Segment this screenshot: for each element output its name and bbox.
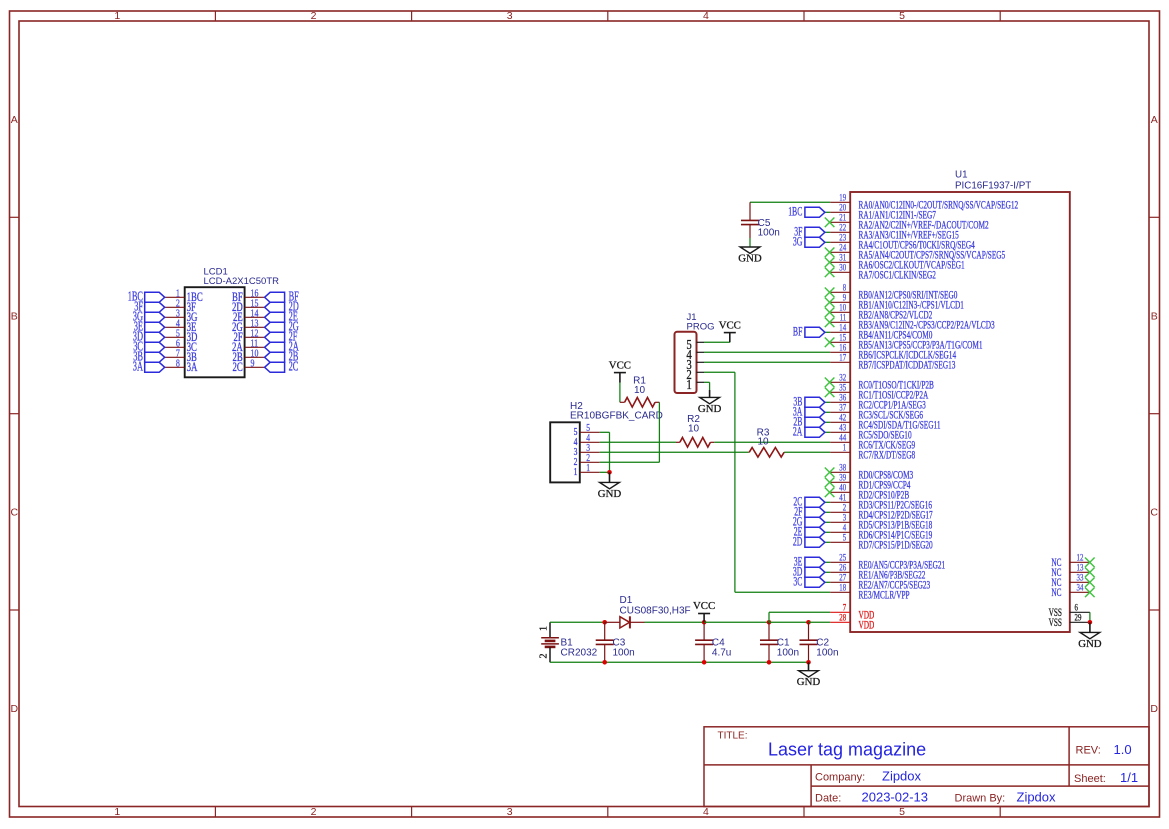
LCD1 pin 4 3E: [165, 317, 197, 333]
wire H2 pin3 to R3: [600, 451, 749, 453]
svg-text:24: 24: [839, 244, 846, 254]
svg-text:2C: 2C: [289, 359, 299, 374]
svg-text:C: C: [11, 507, 19, 519]
wire J1 pin2 to U1 pin18: [704, 372, 830, 592]
H2 pin 5: [574, 423, 600, 438]
svg-text:GND: GND: [738, 252, 762, 264]
U1 pin 14 RB4: [830, 324, 932, 342]
svg-text:44: 44: [839, 434, 846, 444]
svg-text:100n: 100n: [816, 647, 838, 658]
svg-text:ER10BGFBK_CARD: ER10BGFBK_CARD: [570, 410, 663, 421]
svg-text:3A: 3A: [133, 359, 143, 374]
svg-text:100n: 100n: [613, 647, 635, 658]
net flag 3G (U1 pin 23): [793, 235, 830, 249]
svg-text:Zipdox: Zipdox: [882, 769, 922, 784]
U1 pin 37 RC3: [830, 404, 923, 422]
battery B1 CR2032: [539, 622, 598, 662]
U1 pin 25 RE0: [830, 554, 945, 572]
U1 pin 15 RB5: [825, 334, 983, 352]
svg-text:2C: 2C: [233, 360, 243, 374]
net flag 3E (LCD1 pin 4): [134, 319, 165, 334]
svg-text:Company:: Company:: [815, 772, 865, 784]
net flag 3C (LCD1 pin 6): [133, 339, 165, 354]
svg-text:VCC: VCC: [693, 600, 715, 612]
capacitor C1 100n: [760, 622, 799, 662]
U1 pin 39 RD1: [825, 474, 911, 492]
frame column numbers: [114, 10, 905, 818]
U1 pin 12 NC: [1051, 554, 1094, 569]
svg-text:CR2032: CR2032: [561, 647, 598, 658]
svg-text:4.7u: 4.7u: [712, 647, 731, 658]
U1 pin 24 RA5: [825, 244, 1005, 262]
ground GND at H2: [598, 472, 622, 500]
LCD1 pin 2 3F: [165, 297, 196, 313]
wire R2 to U1 pin44: [714, 441, 830, 443]
svg-text:7: 7: [843, 604, 847, 614]
U1 pin 23 RA4: [830, 234, 975, 252]
U1 pin 7 VDD: [830, 604, 874, 622]
op-amp U1 PIC16F1937-I/PT body: [850, 170, 1070, 633]
net flag 2G (LCD1 pin 13): [265, 319, 299, 334]
net flag BF (LCD1 pin 16): [265, 289, 299, 304]
wire U1 pin19 to C5: [750, 201, 830, 203]
svg-text:33: 33: [1077, 574, 1084, 584]
wire VSS pin6 to pin29: [1089, 612, 1091, 622]
U1 pin 31 RA6: [825, 254, 965, 272]
svg-text:A: A: [1151, 114, 1158, 126]
svg-text:12: 12: [1077, 554, 1084, 564]
svg-text:RE3/MCLR/VPP: RE3/MCLR/VPP: [859, 589, 910, 602]
svg-text:23: 23: [839, 234, 846, 244]
svg-text:32: 32: [839, 374, 846, 384]
net flag 3D (LCD1 pin 5): [133, 329, 165, 344]
svg-text:6: 6: [1075, 604, 1079, 614]
svg-text:1: 1: [586, 463, 590, 474]
svg-text:4: 4: [843, 524, 847, 534]
svg-text:Sheet:: Sheet:: [1074, 773, 1106, 785]
LCD1 pin 5 3D: [165, 327, 198, 343]
wire C2 top to U1 pin28: [809, 621, 831, 623]
svg-text:PROG: PROG: [687, 321, 715, 332]
svg-text:2023-02-13: 2023-02-13: [862, 790, 929, 805]
svg-text:1/1: 1/1: [1120, 770, 1138, 785]
wire J1 pin3 to U1 pin17: [704, 361, 830, 363]
capacitor C2 100n: [800, 622, 839, 662]
net flag 2E (U1 pin 4): [794, 525, 830, 539]
net flag BF (U1 pin 14): [793, 325, 830, 339]
svg-text:8: 8: [176, 357, 180, 369]
title block: [704, 727, 1149, 807]
svg-text:CUS08F30,H3F: CUS08F30,H3F: [620, 605, 691, 616]
svg-text:13: 13: [1077, 564, 1084, 574]
LCD1 pin 13 2G: [232, 317, 265, 333]
svg-text:2: 2: [311, 10, 317, 22]
svg-text:1: 1: [539, 626, 550, 631]
svg-text:11: 11: [840, 314, 847, 324]
LCD1 pin 9 2C: [233, 357, 265, 373]
svg-text:3: 3: [843, 514, 847, 524]
U1 pin 1 RC7: [830, 444, 915, 462]
ground GND at U1 VSS: [1078, 622, 1102, 650]
svg-text:17: 17: [839, 354, 846, 364]
svg-text:LCD-A2X1C50TR: LCD-A2X1C50TR: [204, 276, 280, 287]
svg-text:VSS: VSS: [1049, 616, 1062, 629]
svg-text:42: 42: [839, 414, 846, 424]
svg-text:39: 39: [839, 474, 846, 484]
svg-text:40: 40: [839, 484, 846, 494]
wire J1 pin4 to U1 pin16: [704, 351, 830, 353]
U1 pin 38 RD0: [825, 464, 913, 482]
U1 pin 21 RA2: [825, 214, 989, 232]
svg-text:Laser tag magazine: Laser tag magazine: [768, 740, 926, 760]
power VCC at J1: [719, 319, 741, 342]
svg-text:RD7/CPS15/P1D/SEG20: RD7/CPS15/P1D/SEG20: [859, 539, 933, 552]
net flag 3A (LCD1 pin 8): [133, 359, 165, 374]
J1 pin 5: [686, 337, 704, 352]
svg-text:10: 10: [757, 437, 769, 448]
svg-text:36: 36: [839, 394, 846, 404]
U1 pin 9 RB1: [825, 294, 964, 312]
svg-text:VCC: VCC: [609, 359, 631, 371]
svg-text:REV:: REV:: [1076, 745, 1101, 757]
U1 pin 32 RC0: [825, 374, 934, 392]
LCD1 pin 14 2E: [233, 307, 265, 323]
wire C1 to C2 top: [769, 621, 809, 623]
svg-text:NC: NC: [1051, 586, 1061, 599]
U1 pin 33 NC: [1051, 574, 1094, 589]
svg-text:5: 5: [899, 10, 905, 22]
net flag 2G (U1 pin 3): [793, 515, 830, 529]
svg-text:2: 2: [311, 806, 317, 818]
svg-text:B: B: [11, 310, 18, 322]
net flag 1BC (LCD1 pin 1): [128, 289, 165, 304]
svg-text:14: 14: [839, 324, 846, 334]
svg-text:3C: 3C: [793, 575, 802, 589]
net flag 3C (U1 pin 27): [793, 575, 830, 589]
J1 pin 4: [686, 347, 704, 362]
svg-text:27: 27: [839, 574, 846, 584]
net flag 2C (LCD1 pin 9): [265, 359, 299, 374]
net flag 3G (LCD1 pin 3): [133, 309, 165, 324]
net flag 2F (U1 pin 2): [794, 505, 830, 519]
connector LCD1 LCD-A2X1C50TR: [185, 266, 279, 377]
net flag 3F (U1 pin 22): [794, 225, 830, 239]
svg-text:100n: 100n: [777, 647, 799, 658]
U1 pin 42 RC4: [830, 414, 940, 432]
J1 pin 1: [686, 377, 704, 392]
J1 pin 2: [686, 367, 704, 382]
svg-text:9: 9: [251, 357, 255, 369]
junction C1 bottom: [767, 660, 772, 665]
U1 pin 36 RC2: [830, 394, 926, 412]
svg-text:22: 22: [839, 224, 846, 234]
wire VCC to R1: [619, 383, 621, 403]
net flag 3F (LCD1 pin 2): [134, 299, 165, 314]
net flag 3B (LCD1 pin 7): [133, 349, 165, 364]
U1 pin 34 NC: [1051, 584, 1094, 599]
svg-text:3G: 3G: [793, 235, 803, 249]
net flag 1BC (U1 pin 20): [788, 205, 830, 219]
svg-text:16: 16: [839, 344, 846, 354]
wire ground rail: [550, 661, 809, 663]
svg-text:4: 4: [703, 806, 709, 818]
U1 pin 44 RC6: [830, 434, 915, 452]
net flag 3E (U1 pin 25): [794, 555, 830, 569]
wire J1 pin1 to ground: [704, 382, 710, 390]
svg-text:VCC: VCC: [719, 319, 741, 331]
svg-text:2: 2: [539, 654, 550, 659]
junction C4 bottom: [702, 660, 707, 665]
capacitor C3 100n: [596, 622, 635, 662]
power VCC at C4: [693, 600, 715, 622]
connector H2 ER10BGFBK_CARD: [550, 401, 663, 482]
svg-text:8: 8: [843, 284, 847, 294]
LCD1 pin 8 3A: [165, 357, 198, 373]
svg-text:GND: GND: [797, 676, 821, 688]
H2 pin 4: [574, 433, 600, 448]
svg-text:GND: GND: [598, 488, 622, 500]
resistor R2 10: [676, 414, 714, 447]
net flag 2F (LCD1 pin 12): [265, 329, 298, 344]
U1 pin 8 RB0: [825, 284, 958, 302]
svg-text:100n: 100n: [758, 228, 780, 239]
svg-text:B: B: [1151, 310, 1158, 322]
svg-text:GND: GND: [698, 403, 722, 415]
svg-text:19: 19: [839, 194, 846, 204]
wire R3 to U1 pin1: [785, 451, 831, 453]
U1 pin 18 RE3: [830, 584, 910, 602]
U1 pin 28 VDD: [830, 614, 874, 632]
junction VCC / C4: [702, 620, 707, 625]
junction C1 top / VDD branch: [767, 620, 772, 625]
svg-text:1BC: 1BC: [788, 205, 802, 219]
junction C2 bottom: [806, 660, 811, 665]
power VCC at R1: [609, 359, 631, 382]
U1 pin 26 RE1: [830, 564, 925, 582]
svg-text:1: 1: [686, 377, 691, 392]
net flag 3B (U1 pin 36): [793, 395, 830, 409]
svg-text:C: C: [1150, 507, 1158, 519]
LCD1 pin 7 3B: [165, 347, 197, 363]
svg-text:D: D: [1150, 703, 1158, 715]
svg-text:RC7/RX/DT/SEG8: RC7/RX/DT/SEG8: [859, 449, 916, 462]
H2 pin 1: [574, 463, 600, 478]
svg-text:1: 1: [114, 10, 120, 22]
U1 pin 41 RD3: [830, 494, 932, 512]
wire branch to U1 pin7: [769, 612, 830, 622]
svg-text:RA7/OSC1/CLKIN/SEG2: RA7/OSC1/CLKIN/SEG2: [859, 269, 936, 282]
net flag 3D (U1 pin 26): [793, 565, 830, 579]
frame row letters: [11, 114, 1159, 715]
svg-text:35: 35: [839, 384, 846, 394]
U1 pin 16 RB6: [830, 344, 956, 362]
svg-text:PIC16F1937-I/PT: PIC16F1937-I/PT: [955, 181, 1031, 192]
svg-text:GND: GND: [1078, 638, 1102, 650]
net flag 2B (LCD1 pin 10): [265, 349, 299, 364]
U1 pin 19 RA0: [830, 194, 1018, 212]
svg-text:4: 4: [703, 10, 709, 22]
svg-text:30: 30: [839, 264, 846, 274]
LCD1 pin 11 2A: [232, 337, 265, 353]
wire battery plus rail: [550, 621, 605, 623]
ground GND at C5: [738, 247, 762, 264]
U1 pin 6 VSS: [1049, 604, 1090, 619]
wire H2 pin4 to R2: [600, 441, 676, 443]
svg-text:5: 5: [899, 806, 905, 818]
svg-text:A: A: [11, 114, 18, 126]
LCD1 pin 16 BF: [232, 287, 265, 303]
U1 pin 22 RA3: [830, 224, 959, 242]
svg-text:2D: 2D: [793, 535, 803, 549]
LCD1 pin 6 3C: [165, 337, 197, 353]
svg-text:10: 10: [839, 304, 846, 314]
net flag 2B (U1 pin 42): [793, 415, 830, 429]
svg-text:31: 31: [839, 254, 846, 264]
U1 pin 40 RD2: [825, 484, 910, 502]
svg-text:9: 9: [843, 294, 847, 304]
svg-text:10: 10: [688, 424, 700, 435]
net flag 2E (LCD1 pin 14): [265, 309, 298, 324]
junction C3 bottom: [602, 660, 607, 665]
svg-text:29: 29: [1075, 614, 1082, 624]
svg-text:26: 26: [839, 564, 846, 574]
LCD1 pin 10 2B: [233, 347, 265, 363]
wire H2 pin5 to ground bus: [600, 432, 610, 472]
J1 pin 3: [686, 357, 704, 372]
U1 pin 17 RB7: [830, 354, 955, 372]
svg-text:34: 34: [1077, 584, 1084, 594]
svg-text:Drawn By:: Drawn By:: [955, 792, 1006, 804]
U1 pin 27 RE2: [830, 574, 930, 592]
U1 pin 20 RA1: [830, 204, 936, 222]
resistor R1 10: [620, 375, 660, 407]
svg-text:43: 43: [839, 424, 846, 434]
svg-text:TITLE:: TITLE:: [718, 731, 748, 742]
svg-text:2: 2: [843, 504, 847, 514]
U1 pin 5 RD7: [830, 534, 933, 552]
net flag 2D (LCD1 pin 15): [265, 299, 299, 314]
net flag 3A (U1 pin 37): [793, 405, 830, 419]
svg-text:20: 20: [839, 204, 846, 214]
svg-text:U1: U1: [955, 170, 968, 181]
svg-text:37: 37: [839, 404, 846, 414]
svg-text:Zipdox: Zipdox: [1017, 790, 1057, 805]
U1 pin 3 RD5: [830, 514, 932, 532]
wire R1 to H2 pin2: [600, 402, 660, 462]
wire J1 pin5 to VCC: [704, 341, 730, 343]
svg-text:21: 21: [839, 214, 846, 224]
svg-text:BF: BF: [793, 325, 803, 339]
svg-text:3: 3: [507, 10, 513, 22]
U1 pin 13 NC: [1051, 564, 1094, 579]
svg-text:10: 10: [634, 385, 646, 396]
junction H2 ground node: [607, 470, 612, 475]
wire C5 to ground: [749, 238, 751, 247]
svg-text:Date:: Date:: [815, 792, 841, 804]
diode D1 CUS08F30,H3F: [605, 595, 691, 628]
svg-text:1: 1: [114, 806, 120, 818]
U1 pin 2 RD4: [830, 504, 933, 522]
capacitor C5 100n: [741, 202, 780, 238]
svg-text:D: D: [11, 703, 19, 715]
net flag 2D (U1 pin 5): [793, 535, 830, 549]
U1 pin 43 RC5: [830, 424, 911, 442]
H2 pin 3: [574, 443, 600, 458]
svg-text:3A: 3A: [187, 360, 198, 374]
svg-text:25: 25: [839, 554, 846, 564]
svg-text:5: 5: [843, 534, 847, 544]
svg-text:2A: 2A: [793, 425, 803, 439]
svg-text:38: 38: [839, 464, 846, 474]
LCD1 pin 12 2F: [234, 327, 265, 343]
svg-text:3: 3: [507, 806, 513, 818]
junction VSS node: [1088, 620, 1093, 625]
svg-text:1: 1: [843, 444, 847, 454]
U1 pin 30 RA7: [825, 264, 936, 282]
net flag 2A (U1 pin 43): [793, 425, 830, 439]
capacitor C4 4.7u: [695, 622, 731, 662]
svg-text:28: 28: [839, 614, 846, 624]
LCD1 pin 1 1BC: [165, 287, 203, 303]
U1 pin 29 VSS: [1049, 614, 1090, 629]
svg-text:RB7/ICSPDAT/ICDDAT/SEG13: RB7/ICSPDAT/ICDDAT/SEG13: [859, 359, 956, 372]
U1 pin 35 RC1: [825, 384, 929, 402]
LCD1 pin 3 3G: [165, 307, 198, 323]
wire H2 pin1 to ground node: [600, 471, 610, 473]
junction C3 top: [602, 620, 607, 625]
svg-text:1.0: 1.0: [1114, 742, 1132, 757]
ground GND at J1: [698, 390, 722, 415]
U1 pin 11 RB3: [825, 314, 995, 332]
U1 pin 10 RB2: [825, 304, 933, 322]
resistor R3 10: [749, 427, 785, 457]
svg-text:41: 41: [839, 494, 846, 504]
title block text: [718, 731, 1139, 805]
wire D1 to VCC node: [645, 621, 705, 623]
LCD1 pin 15 2D: [232, 297, 265, 313]
H2 pin 2: [574, 453, 600, 468]
net flag 2A (LCD1 pin 11): [265, 339, 299, 354]
svg-text:15: 15: [839, 334, 846, 344]
wire VCC node to C1: [704, 621, 769, 623]
junction C2 top: [806, 620, 811, 625]
svg-text:VDD: VDD: [859, 619, 875, 632]
U1 pin 4 RD6: [830, 524, 932, 542]
ground GND at rail: [797, 662, 821, 688]
svg-text:18: 18: [839, 584, 846, 594]
svg-text:1: 1: [574, 467, 578, 478]
net flag 2C (U1 pin 41): [793, 495, 830, 509]
connector J1 PROG: [675, 312, 715, 393]
